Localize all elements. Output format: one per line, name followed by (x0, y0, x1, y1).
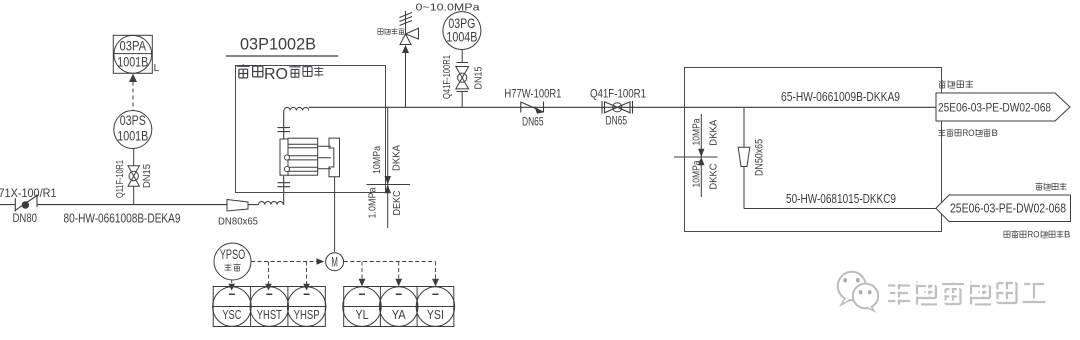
arrow up to PSV (402, 45, 409, 53)
wire 03PS to valve (133, 149, 135, 166)
union (discharge) (278, 128, 291, 132)
svg-text:10MPa: 10MPa (691, 118, 702, 145)
svg-text:71X-100/R1: 71X-100/R1 (0, 186, 57, 200)
instrument YPSO 变频 (214, 243, 251, 280)
pump package box (236, 66, 386, 193)
wechat logo (838, 272, 878, 311)
wire discharge riser (283, 111, 285, 140)
svg-text:M: M (331, 253, 338, 269)
svg-text:H77W-100R1: H77W-100R1 (504, 89, 561, 101)
svg-text:DN65: DN65 (606, 116, 628, 128)
wire gauge branch (461, 50, 463, 108)
svg-text:B: B (992, 128, 998, 139)
wire dashed drop YHSP (306, 262, 308, 285)
instrument YSC circle (213, 287, 252, 327)
instrument YSI circle (416, 287, 455, 327)
wire dashed signal (132, 82, 134, 111)
svg-text:DKKA: DKKA (709, 119, 720, 145)
pump left plate (280, 139, 288, 175)
svg-text:80-HW-0661008B-DEKA9: 80-HW-0661008B-DEKA9 (64, 211, 181, 225)
cell dividers (251, 287, 288, 327)
svg-text:YHSP: YHSP (294, 308, 320, 322)
label 自高压RO增压泵B (1004, 230, 1064, 238)
instrument YA circle (379, 287, 418, 327)
svg-text:03PS: 03PS (120, 113, 146, 128)
wire suction from left edge (0, 204, 16, 206)
RO unit box (685, 68, 942, 232)
instrument YL circle (343, 287, 382, 327)
svg-text:10MPa: 10MPa (691, 160, 702, 187)
label 至高压RO装置B (938, 129, 990, 137)
svg-text:0~10.0MPa: 0~10.0MPa (416, 2, 480, 14)
svg-text:03PG: 03PG (448, 16, 475, 31)
wire dashed drop YSI (435, 262, 437, 282)
valve Q41F-100R1 DN65 (ball) (602, 101, 633, 114)
svg-text:50-HW-0681015-DKKC9: 50-HW-0681015-DKKC9 (786, 192, 896, 206)
svg-text:DKKA: DKKA (392, 145, 403, 171)
instrument 03PA 1001B (square) (113, 35, 152, 73)
dash marks (229, 293, 310, 295)
label 高压RO高压泵 (237, 64, 324, 78)
wire dashed drop YSC (231, 280, 233, 284)
instrument YHST circle (250, 287, 289, 327)
wire main discharge line (309, 106, 936, 108)
svg-text:DN80: DN80 (13, 213, 38, 225)
label 高浓盐水 (top) (939, 80, 973, 88)
pump body (288, 138, 318, 175)
signal box frame left (213, 287, 325, 327)
class break arrows (385, 176, 392, 193)
svg-text:RO: RO (963, 128, 975, 139)
svg-text:1.0MPa: 1.0MPa (368, 187, 379, 218)
class boundary line (367, 184, 411, 186)
cell dividers (380, 287, 417, 327)
relief valve PSV (400, 11, 419, 45)
svg-text:DN80x65: DN80x65 (218, 216, 258, 228)
wire valve to suction line (133, 186, 135, 204)
svg-text:YA: YA (392, 308, 407, 322)
reducer DN80x65 (227, 200, 248, 212)
class break marker in box (700, 114, 702, 197)
instrument YHSP circle (287, 287, 326, 327)
wire bottom line (744, 208, 936, 210)
svg-text:DN15: DN15 (473, 66, 485, 89)
valve Q11F-10R1 DN15 (ball, vertical) (128, 166, 139, 186)
wire recirculation drop (743, 107, 745, 208)
dash marks (359, 293, 438, 295)
midline (213, 306, 325, 308)
valve 71X-100/R1 (butterfly) (15, 194, 38, 211)
svg-text:1004B: 1004B (446, 30, 477, 45)
wire suction to reducer (37, 204, 227, 206)
valve Q41F-100R1 DN15 (ball, vertical) (456, 63, 469, 92)
svg-text:YSC: YSC (222, 308, 241, 322)
svg-text:DKKC: DKKC (709, 164, 720, 190)
signal box frame right (344, 287, 454, 327)
flexible coil (discharge) (284, 107, 309, 110)
pump right bracket (329, 138, 340, 177)
svg-text:Q41F-100R1: Q41F-100R1 (590, 89, 646, 101)
svg-text:YSI: YSI (427, 308, 444, 322)
wire reducer to coil (248, 204, 259, 206)
svg-text:RO: RO (1028, 230, 1040, 241)
arrow up into 03PA (129, 74, 137, 82)
svg-text:DN15: DN15 (141, 164, 153, 188)
pump body bands (288, 144, 318, 171)
PSV spring (400, 11, 413, 34)
valve H77W-100R1 (check) (521, 102, 544, 113)
connector from booster pump (bottom) (936, 195, 1071, 222)
pump rods (318, 146, 331, 169)
wire suction riser (283, 176, 285, 205)
svg-text:YL: YL (356, 308, 369, 322)
svg-text:L: L (154, 62, 160, 74)
svg-text:25E06-03-PE-DW02-068: 25E06-03-PE-DW02-068 (938, 101, 1051, 115)
label 高浓盐水 (bottom) (1035, 183, 1066, 191)
wire PSV branch (405, 53, 407, 107)
pump plunger circles (284, 155, 289, 160)
label 阀门位号 (378, 28, 405, 35)
svg-text:Q41F-100R1: Q41F-100R1 (441, 55, 453, 99)
wire dashed M to right (344, 261, 436, 263)
wire dashed drop YHST (268, 262, 270, 285)
wire dashed YPSO to M (251, 261, 321, 263)
instrument 03PG 1004B (443, 12, 481, 50)
union (suction) (278, 183, 291, 187)
instrument 03PS 1001B (114, 111, 152, 149)
svg-text:1001B: 1001B (117, 53, 148, 69)
svg-text:Q11F-10R1: Q11F-10R1 (114, 160, 126, 198)
watermark text highlight (886, 278, 1044, 302)
title underline (226, 55, 338, 57)
watermark text 水处理搬运工 (shadow) (888, 281, 1046, 305)
reducer DN50x65 (738, 147, 750, 166)
svg-text:DEKC: DEKC (392, 191, 403, 216)
wire pump shaft down to motor (334, 177, 336, 252)
svg-text:03P1002B: 03P1002B (240, 35, 316, 54)
svg-text:DN65: DN65 (522, 117, 544, 129)
connector to RO unit (top) (936, 93, 1070, 121)
wire dashed drop YA (398, 262, 400, 282)
svg-text:65-HW-0661009B-DKKA9: 65-HW-0661009B-DKKA9 (781, 90, 900, 104)
midline (344, 306, 454, 308)
flexible coil (suction) (259, 202, 284, 205)
svg-text:25E06-03-PE-DW02-068: 25E06-03-PE-DW02-068 (950, 202, 1066, 216)
svg-text:YHST: YHST (257, 308, 282, 322)
svg-text:1001B: 1001B (117, 129, 148, 144)
wire drain line (387, 107, 389, 228)
svg-text:03PA: 03PA (120, 37, 147, 53)
svg-text:YPSO: YPSO (220, 247, 246, 262)
svg-text:B: B (1064, 230, 1070, 241)
svg-text:10MPa: 10MPa (372, 146, 383, 174)
svg-text:RO: RO (264, 66, 288, 83)
wire dashed drop YL (361, 262, 363, 282)
svg-text:DN50x65: DN50x65 (754, 139, 766, 176)
motor M (326, 253, 344, 271)
